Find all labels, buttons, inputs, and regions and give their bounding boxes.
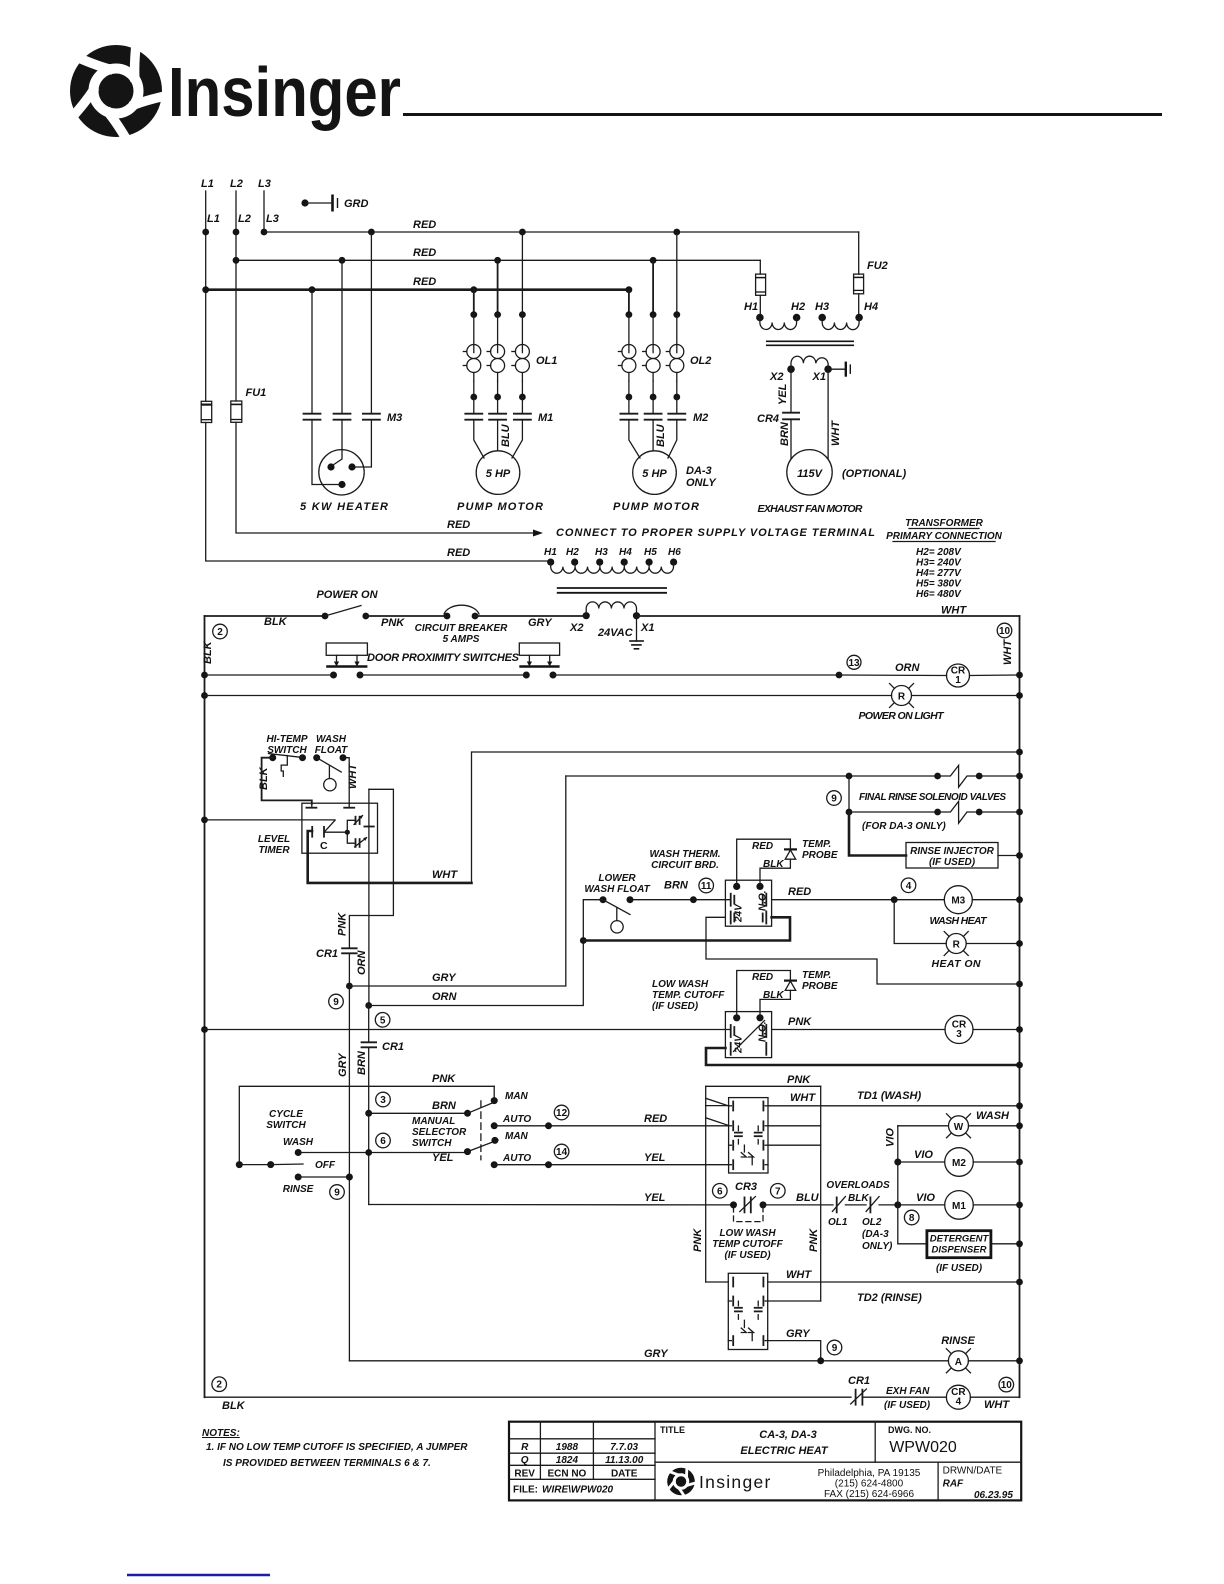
svg-text:SELECTOR: SELECTOR xyxy=(412,1127,467,1138)
relay coil CR1 xyxy=(947,664,1023,687)
svg-text:11.13.00: 11.13.00 xyxy=(605,1455,644,1466)
contactor coil M1 xyxy=(945,1191,1023,1220)
svg-text:RED: RED xyxy=(413,219,436,231)
level timer contact upper xyxy=(347,815,374,832)
svg-text:10: 10 xyxy=(999,626,1011,637)
svg-text:C: C xyxy=(320,840,328,852)
svg-text:H4= 277V: H4= 277V xyxy=(916,568,962,579)
wire VIO vertical xyxy=(885,1126,898,1244)
svg-text:BLK: BLK xyxy=(258,766,270,790)
svg-text:Insinger: Insinger xyxy=(699,1472,772,1492)
svg-text:8: 8 xyxy=(909,1213,915,1224)
svg-text:Philadelphia, PA 19135: Philadelphia, PA 19135 xyxy=(818,1468,921,1479)
node terminal 8 circle xyxy=(904,1210,919,1225)
svg-text:L1: L1 xyxy=(201,178,214,190)
svg-text:MANUAL: MANUAL xyxy=(412,1116,455,1127)
timer TD1 inner box xyxy=(729,1098,768,1173)
label LOW WASH TEMP CUTOFF IF USED xyxy=(712,1228,783,1261)
overload contact OL2 xyxy=(845,1197,893,1253)
wire breaker to X2 xyxy=(475,615,586,617)
timer TD2 contacts xyxy=(728,1278,767,1346)
node terminal 7 circle xyxy=(771,1184,786,1199)
svg-text:H3= 240V: H3= 240V xyxy=(916,558,962,569)
low wash temp cutoff board box xyxy=(725,1012,771,1058)
contact CR3 dashed bypass xyxy=(734,1207,764,1222)
wire RED output to M3 xyxy=(772,886,945,903)
node terminal 3 circle xyxy=(376,1092,391,1107)
timer TD2 GRY output xyxy=(768,1328,821,1361)
svg-text:24V: 24V xyxy=(734,1034,745,1054)
svg-text:HEAT ON: HEAT ON xyxy=(932,958,981,970)
svg-text:YEL: YEL xyxy=(644,1152,666,1164)
wire M3 mid to heater xyxy=(333,420,342,465)
svg-text:VIO: VIO xyxy=(916,1192,935,1204)
svg-text:1: 1 xyxy=(955,675,961,686)
svg-text:GRY: GRY xyxy=(528,617,553,629)
wire BRN to fan motor xyxy=(779,419,791,459)
svg-text:WASH: WASH xyxy=(316,734,347,745)
svg-text:6: 6 xyxy=(717,1186,723,1197)
svg-text:DISPENSER: DISPENSER xyxy=(932,1245,987,1256)
door proximity switch 1 xyxy=(326,643,367,679)
svg-text:L1: L1 xyxy=(207,213,220,225)
wire door rung segments xyxy=(201,672,946,679)
svg-text:FU1: FU1 xyxy=(246,387,267,399)
svg-text:TD2 (RINSE): TD2 (RINSE) xyxy=(857,1292,922,1304)
svg-text:5: 5 xyxy=(380,1015,386,1026)
switch POWER ON xyxy=(316,589,378,619)
svg-text:115V: 115V xyxy=(797,468,824,480)
main transformer core xyxy=(557,588,667,593)
svg-text:14: 14 xyxy=(556,1147,568,1158)
contact CR4 xyxy=(757,413,799,425)
selector pole 2 xyxy=(464,1131,531,1168)
svg-text:PNK: PNK xyxy=(808,1228,820,1252)
svg-text:R: R xyxy=(521,1442,529,1453)
svg-text:H2: H2 xyxy=(791,301,805,313)
svg-text:YEL: YEL xyxy=(777,383,789,405)
title block title cell xyxy=(660,1425,829,1457)
contact CR1 exh fan xyxy=(848,1375,946,1411)
svg-text:MAN: MAN xyxy=(505,1131,529,1142)
svg-text:RAF: RAF xyxy=(943,1479,964,1490)
svg-text:ECN NO: ECN NO xyxy=(547,1469,586,1480)
wire ORN branch xyxy=(365,941,583,1009)
svg-text:BLK: BLK xyxy=(763,859,784,870)
svg-text:L3: L3 xyxy=(266,213,279,225)
svg-text:BLU: BLU xyxy=(500,423,512,447)
wire final rinse solenoid line 1 xyxy=(566,765,1023,787)
title block rev table xyxy=(509,1422,655,1496)
svg-text:GRY: GRY xyxy=(337,1052,349,1077)
wire ORN drop to GRY junction xyxy=(349,950,368,987)
svg-text:CR1: CR1 xyxy=(316,948,338,960)
wire power on light rung xyxy=(201,692,1023,699)
svg-text:WASH: WASH xyxy=(283,1137,314,1148)
fuse FU2 xyxy=(854,260,888,294)
wire RED bus 3 (heavy) xyxy=(202,276,632,293)
svg-text:RED: RED xyxy=(644,1113,667,1125)
node terminal 6 circle at CR3 xyxy=(713,1184,728,1199)
level timer terminal T-marks xyxy=(306,803,354,808)
wire L2 column upper xyxy=(235,191,237,401)
exhaust fan motor 115V xyxy=(787,450,907,495)
svg-text:OL2: OL2 xyxy=(862,1217,882,1228)
main transformer primary winding xyxy=(551,562,674,573)
svg-text:BRN: BRN xyxy=(356,1050,368,1075)
svg-text:CR1: CR1 xyxy=(848,1375,870,1387)
wire bottom rung xyxy=(205,1396,852,1398)
svg-text:LOWER: LOWER xyxy=(598,873,636,884)
decorative blue line bottom xyxy=(127,1574,270,1576)
node terminal 4 circle xyxy=(901,878,916,893)
svg-text:H2: H2 xyxy=(566,547,579,558)
pilot light R POWER ON LIGHT xyxy=(859,684,946,723)
wire to heat on light xyxy=(894,900,946,944)
svg-text:9: 9 xyxy=(831,794,837,805)
svg-text:11: 11 xyxy=(701,881,712,892)
wire RED from selector AUTO1 xyxy=(494,1113,728,1129)
svg-text:(OPTIONAL): (OPTIONAL) xyxy=(842,468,906,480)
wire rail to breaker xyxy=(366,615,447,617)
svg-text:RINSE: RINSE xyxy=(283,1184,314,1195)
level timer motor C contact xyxy=(312,820,335,852)
timer TD1 right vertical xyxy=(768,1086,821,1301)
svg-text:REV: REV xyxy=(514,1469,535,1480)
svg-text:1824: 1824 xyxy=(556,1455,579,1466)
wire X2 YEL to CR4 xyxy=(777,369,791,412)
title block logo pinwheel small xyxy=(667,1467,697,1497)
svg-text:NOTES:: NOTES: xyxy=(202,1428,240,1439)
relay coil CR3 xyxy=(945,1016,1023,1044)
svg-text:WHT: WHT xyxy=(830,420,842,446)
svg-text:X2: X2 xyxy=(569,622,583,634)
timer TD1 top PNK line xyxy=(706,1074,821,1086)
svg-text:H3: H3 xyxy=(815,301,829,313)
ground GRD symbol xyxy=(301,195,368,212)
door proximity switch 2 xyxy=(519,643,559,679)
svg-text:EXH FAN: EXH FAN xyxy=(886,1386,930,1397)
svg-text:RINSE INJECTOR: RINSE INJECTOR xyxy=(910,846,994,857)
svg-text:1. IF NO LOW TEMP CUTOFF IS SP: 1. IF NO LOW TEMP CUTOFF IS SPECIFIED, A… xyxy=(206,1442,468,1453)
svg-text:ELECTRIC HEAT: ELECTRIC HEAT xyxy=(740,1445,828,1457)
wire BRN float to board xyxy=(630,880,731,904)
node terminal 10 top circle xyxy=(997,623,1012,638)
wire L1 column upper xyxy=(205,191,207,401)
wire PNK output to CR3 coil xyxy=(772,1016,945,1030)
ground at X1 24VAC xyxy=(629,616,644,649)
svg-text:FILE:: FILE: xyxy=(513,1485,538,1496)
wire GRY branch xyxy=(346,776,566,989)
main transformer secondary 24VAC xyxy=(569,602,654,639)
svg-text:R: R xyxy=(898,692,906,703)
arrow to supply voltage note xyxy=(533,530,543,537)
svg-text:9: 9 xyxy=(832,1343,838,1354)
svg-text:X1: X1 xyxy=(640,622,654,634)
svg-text:VIO: VIO xyxy=(914,1149,933,1161)
title block address xyxy=(818,1468,921,1500)
svg-text:AUTO: AUTO xyxy=(502,1114,531,1125)
header rule xyxy=(403,113,1162,116)
svg-text:L2: L2 xyxy=(238,213,251,225)
svg-text:RED: RED xyxy=(752,972,773,983)
rinse injector box xyxy=(906,843,1023,869)
svg-text:2: 2 xyxy=(216,1380,222,1391)
timer TD2 right feed xyxy=(768,1300,821,1302)
svg-text:10: 10 xyxy=(1001,1380,1013,1391)
svg-text:TEMP.: TEMP. xyxy=(802,839,831,850)
wire bus2 drop to H1 fuse xyxy=(759,260,761,274)
node terminal 9 circle at cycle xyxy=(330,1185,345,1200)
wire GRY vertical to cycle switch xyxy=(337,986,350,1361)
svg-text:PUMP MOTOR: PUMP MOTOR xyxy=(457,501,543,513)
node terminal 2 top circle xyxy=(213,624,228,639)
node terminal 12 circle xyxy=(554,1105,569,1120)
svg-text:WASH HEAT: WASH HEAT xyxy=(930,915,989,927)
svg-text:PNK: PNK xyxy=(337,912,349,936)
svg-text:H4: H4 xyxy=(619,547,632,558)
wire right rail xyxy=(1019,616,1021,1397)
wire overloads to M1 xyxy=(879,1192,945,1208)
wire BRN selector pole1 xyxy=(365,1100,467,1117)
svg-text:BLU: BLU xyxy=(655,423,667,447)
level timer box xyxy=(302,803,378,853)
node terminal 9 circle xyxy=(329,994,344,1009)
svg-text:RED: RED xyxy=(447,547,470,559)
svg-text:WASH THERM.: WASH THERM. xyxy=(649,849,720,860)
svg-text:5 AMPS: 5 AMPS xyxy=(443,634,480,645)
svg-text:PUMP MOTOR: PUMP MOTOR xyxy=(613,501,699,513)
svg-text:BLU: BLU xyxy=(796,1192,820,1204)
svg-text:H5: H5 xyxy=(644,547,657,558)
wire heavy link float to board NO xyxy=(580,917,790,944)
wire BRN vertical xyxy=(356,1006,369,1205)
svg-text:H1: H1 xyxy=(544,547,557,558)
svg-text:ORN: ORN xyxy=(432,991,458,1003)
selector mechanical link dashed xyxy=(480,1101,482,1160)
wire RED bus 1 xyxy=(264,219,859,235)
timer TD1 left vertical and flags xyxy=(706,1086,729,1282)
control transformer secondary X2 X1 xyxy=(769,356,832,383)
svg-text:ORN: ORN xyxy=(356,950,368,976)
svg-text:M2: M2 xyxy=(693,412,708,424)
svg-text:(FOR DA-3 ONLY): (FOR DA-3 ONLY) xyxy=(862,821,946,832)
main transformer H1-H6 terminals xyxy=(544,547,681,566)
svg-text:WIRE\WPW020: WIRE\WPW020 xyxy=(542,1485,614,1496)
wire low wash 24V common heavy to rail xyxy=(706,1048,1023,1068)
svg-text:SWITCH: SWITCH xyxy=(412,1138,452,1149)
wire YEL from selector AUTO2 xyxy=(494,1152,728,1168)
wire left rail xyxy=(204,616,206,1397)
svg-text:HI-TEMP: HI-TEMP xyxy=(266,734,307,745)
svg-text:R: R xyxy=(953,940,961,951)
pilot light W WASH xyxy=(898,1110,1023,1138)
svg-text:DA-3: DA-3 xyxy=(686,465,712,477)
wire wash float to level timer xyxy=(343,758,349,804)
svg-text:FAX (215) 624-6966: FAX (215) 624-6966 xyxy=(824,1489,914,1500)
svg-text:M2: M2 xyxy=(952,1158,966,1169)
svg-text:TITLE: TITLE xyxy=(660,1425,685,1435)
svg-text:FU2: FU2 xyxy=(867,260,888,272)
contactor M3 columns xyxy=(312,232,371,413)
pump motor 1 circle xyxy=(474,420,523,495)
svg-text:OFF: OFF xyxy=(315,1160,336,1171)
svg-text:H5= 380V: H5= 380V xyxy=(916,579,962,590)
wire staple over timer xyxy=(349,789,393,947)
svg-text:EXHAUST FAN MOTOR: EXHAUST FAN MOTOR xyxy=(758,503,863,515)
svg-text:BLK: BLK xyxy=(264,616,288,628)
wire X1 WHT to fan motor xyxy=(828,369,842,459)
svg-text:PNK: PNK xyxy=(381,617,405,629)
pump motor 2 circle xyxy=(629,420,677,495)
svg-text:PRIMARY CONNECTION: PRIMARY CONNECTION xyxy=(886,531,1003,542)
wire L1 column lower to RED feed xyxy=(206,423,551,562)
overload OL1 elements xyxy=(463,315,557,401)
wire WHT riser to rinse line xyxy=(472,752,1020,883)
svg-text:TD1 (WASH): TD1 (WASH) xyxy=(857,1090,922,1102)
temp probe upper xyxy=(737,839,838,886)
svg-text:GRY: GRY xyxy=(644,1348,669,1360)
svg-text:13: 13 xyxy=(848,658,860,669)
switch cycle xyxy=(236,1161,303,1168)
svg-text:WASH FLOAT: WASH FLOAT xyxy=(584,884,650,895)
svg-text:WASH: WASH xyxy=(976,1110,1010,1122)
svg-text:H4: H4 xyxy=(864,301,878,313)
svg-text:H1: H1 xyxy=(744,301,758,313)
svg-text:(DA-3: (DA-3 xyxy=(862,1229,889,1240)
timer TD2 left feed xyxy=(706,1281,729,1283)
svg-text:WHT: WHT xyxy=(984,1399,1010,1411)
svg-text:VIO: VIO xyxy=(885,1128,897,1147)
svg-text:5 HP: 5 HP xyxy=(642,468,667,480)
wire RED bus 2 xyxy=(233,247,761,264)
svg-text:(215) 624-4800: (215) 624-4800 xyxy=(835,1479,904,1490)
contactor M2 contacts xyxy=(620,397,708,424)
fuse on H1 xyxy=(756,274,766,295)
svg-text:9: 9 xyxy=(333,997,339,1008)
svg-text:M1: M1 xyxy=(952,1201,966,1212)
svg-text:PROBE: PROBE xyxy=(802,981,838,992)
svg-text:RINSE: RINSE xyxy=(941,1335,975,1347)
svg-text:DOOR PROXIMITY SWITCHES: DOOR PROXIMITY SWITCHES xyxy=(367,652,520,664)
svg-text:CR4: CR4 xyxy=(757,413,779,425)
timer TD2 inner box xyxy=(728,1273,767,1349)
svg-text:ORN: ORN xyxy=(895,662,921,674)
svg-text:DATE: DATE xyxy=(611,1469,638,1480)
control transformer primary H1-H4 xyxy=(744,294,878,330)
contact CR1 lower xyxy=(362,1041,405,1053)
wire left rail rung to level timer xyxy=(201,817,335,824)
svg-text:OL1: OL1 xyxy=(536,355,557,367)
svg-text:A: A xyxy=(955,1357,962,1368)
svg-text:2: 2 xyxy=(217,627,223,638)
svg-text:CONNECT TO PROPER SUPPLY VOLTA: CONNECT TO PROPER SUPPLY VOLTAGE TERMINA… xyxy=(556,527,875,539)
title block frame xyxy=(509,1422,1021,1501)
svg-text:L2: L2 xyxy=(230,178,243,190)
svg-text:FINAL RINSE SOLENOID VALVES: FINAL RINSE SOLENOID VALVES xyxy=(859,792,1006,803)
svg-text:GRY: GRY xyxy=(432,972,457,984)
wire heavy WHT from timer C xyxy=(308,831,472,883)
svg-text:WHT: WHT xyxy=(790,1092,816,1104)
cycle switch feed PNK xyxy=(239,1073,494,1165)
svg-text:4: 4 xyxy=(956,1397,962,1408)
svg-text:CR3: CR3 xyxy=(735,1181,757,1193)
node cycle RINSE terminal xyxy=(283,1174,353,1196)
svg-text:SWITCH: SWITCH xyxy=(266,1120,306,1131)
detergent dispenser box xyxy=(898,1231,1023,1274)
wash therm circuit board box xyxy=(725,880,771,926)
svg-text:YEL: YEL xyxy=(432,1152,454,1164)
svg-text:POWER ON LIGHT: POWER ON LIGHT xyxy=(859,710,946,722)
svg-text:BLK: BLK xyxy=(848,1193,869,1204)
switch wash float xyxy=(313,754,346,791)
svg-text:Insinger: Insinger xyxy=(168,53,401,131)
level timer contact lower xyxy=(347,832,367,847)
svg-text:WHT: WHT xyxy=(786,1269,812,1281)
svg-text:LEVEL: LEVEL xyxy=(258,834,290,845)
svg-text:OVERLOADS: OVERLOADS xyxy=(826,1180,890,1191)
svg-text:H6= 480V: H6= 480V xyxy=(916,589,962,600)
wire hi-temp to level timer xyxy=(262,758,312,804)
heater 5KW circle xyxy=(319,450,364,495)
svg-text:BRN: BRN xyxy=(779,421,791,446)
svg-text:DWG. NO.: DWG. NO. xyxy=(888,1425,931,1435)
svg-text:RED: RED xyxy=(752,841,773,852)
overload OL2 elements xyxy=(618,315,711,401)
title block dwg no cell xyxy=(888,1425,957,1456)
svg-text:PNK: PNK xyxy=(787,1074,811,1086)
pilot light R HEAT ON xyxy=(932,932,1023,971)
svg-text:1988: 1988 xyxy=(556,1442,579,1453)
svg-text:POWER ON: POWER ON xyxy=(316,589,378,601)
svg-text:PNK: PNK xyxy=(788,1016,812,1028)
contactor coil M3 xyxy=(930,886,1023,927)
svg-text:AUTO: AUTO xyxy=(502,1153,531,1164)
switch lower wash float xyxy=(600,896,634,933)
svg-text:BLK: BLK xyxy=(222,1400,246,1412)
node terminal 5 circle xyxy=(375,1013,390,1028)
svg-text:(IF USED): (IF USED) xyxy=(936,1263,983,1274)
svg-text:RED: RED xyxy=(413,276,436,288)
level timer common junction xyxy=(324,830,350,835)
svg-text:BLK: BLK xyxy=(763,990,784,1001)
svg-text:4: 4 xyxy=(906,881,912,892)
control transformer core xyxy=(766,341,854,345)
svg-text:CYCLE: CYCLE xyxy=(269,1109,303,1120)
contactor M3 contacts xyxy=(304,412,403,424)
svg-text:06.23.95: 06.23.95 xyxy=(974,1490,1013,1501)
contactor M1 contacts xyxy=(465,397,553,424)
selector pole 1 xyxy=(464,1086,531,1129)
svg-text:ONLY: ONLY xyxy=(686,477,717,489)
svg-text:WPW020: WPW020 xyxy=(889,1439,957,1456)
svg-text:5 KW HEATER: 5 KW HEATER xyxy=(300,501,388,513)
svg-text:CIRCUIT BREAKER: CIRCUIT BREAKER xyxy=(415,623,509,634)
svg-text:L3: L3 xyxy=(258,178,271,190)
svg-text:CA-3, DA-3: CA-3, DA-3 xyxy=(759,1429,816,1441)
title block drwn date cell xyxy=(943,1466,1014,1502)
svg-text:RED: RED xyxy=(447,519,470,531)
svg-text:BRN: BRN xyxy=(432,1100,457,1112)
node terminal 2 bottom circle xyxy=(212,1377,227,1392)
svg-text:CR1: CR1 xyxy=(382,1041,404,1053)
contact CR3 xyxy=(730,1181,833,1212)
ground at X1 xyxy=(828,362,850,377)
svg-text:3: 3 xyxy=(956,1029,962,1040)
svg-text:LOW WASH: LOW WASH xyxy=(719,1228,776,1239)
svg-text:WHT: WHT xyxy=(941,605,967,617)
svg-text:PROBE: PROBE xyxy=(802,850,838,861)
